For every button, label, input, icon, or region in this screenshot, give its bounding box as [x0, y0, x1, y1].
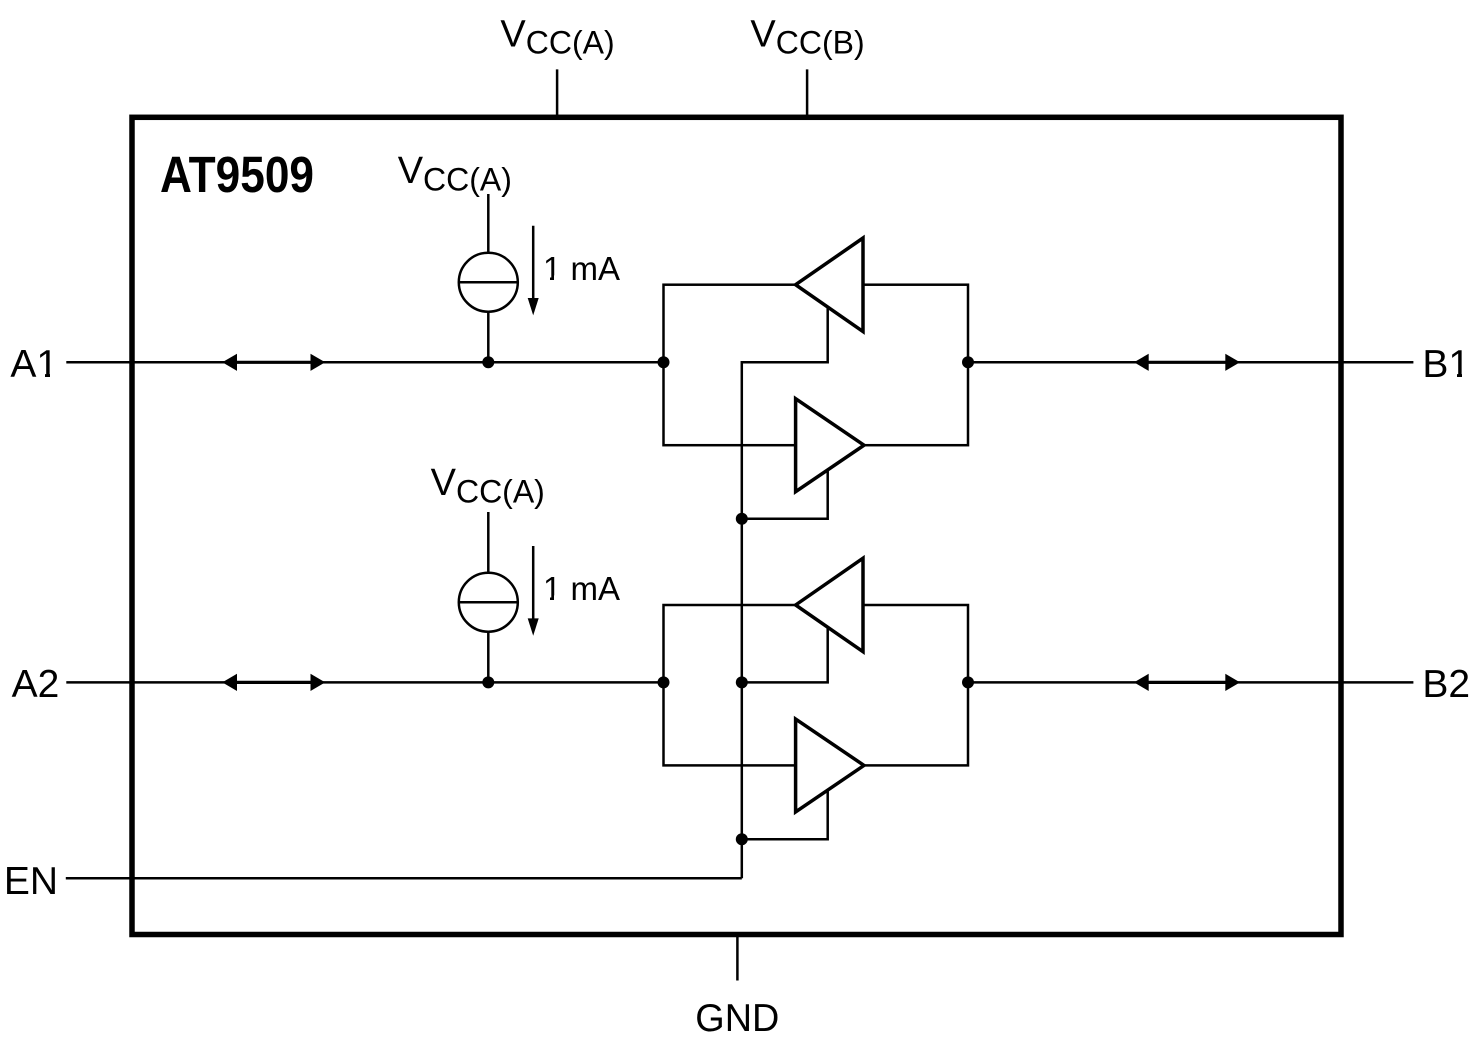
svg-text:B2: B2: [1422, 663, 1470, 706]
svg-text:A2: A2: [12, 663, 60, 706]
svg-text:AT9509: AT9509: [160, 146, 314, 203]
svg-text:A1: A1: [10, 343, 58, 386]
svg-text:EN: EN: [4, 860, 58, 903]
svg-text:B1: B1: [1422, 343, 1470, 386]
svg-text:GND: GND: [695, 997, 779, 1040]
